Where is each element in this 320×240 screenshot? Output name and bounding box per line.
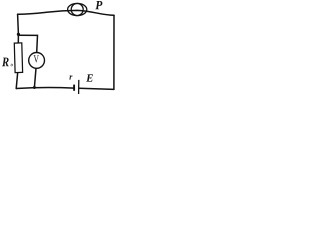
battery short thick plate (negative)	[73, 85, 75, 91]
wire left lower (BL corner up to resistor bottom)	[16, 72, 18, 88]
battery long thin plate (positive)	[78, 80, 80, 94]
label r	[69, 75, 72, 79]
wire bottom right (BR corner to battery long plate)	[79, 88, 114, 89]
label E	[86, 74, 93, 81]
label P	[95, 1, 102, 9]
wire left upper (resistor top to junction to TL corner)	[17, 14, 20, 43]
wire voltmeter branch top (junction to voltmeter top)	[18, 35, 37, 52]
resistor R0	[14, 43, 22, 73]
wire voltmeter branch bottom (voltmeter to bottom junction)	[34, 68, 36, 87]
wire right side	[113, 15, 115, 89]
voltmeter V	[29, 53, 45, 69]
junction dot left (node joining voltmeter branch)	[17, 33, 20, 36]
label R0	[2, 58, 9, 67]
lamp P	[68, 3, 87, 15]
wire top (TL corner to TR corner, bows up through lamp)	[18, 10, 114, 15]
junction dot bottom (voltmeter return on bottom wire)	[33, 86, 36, 89]
wire bottom left (battery short plate to BL corner)	[16, 87, 74, 88]
